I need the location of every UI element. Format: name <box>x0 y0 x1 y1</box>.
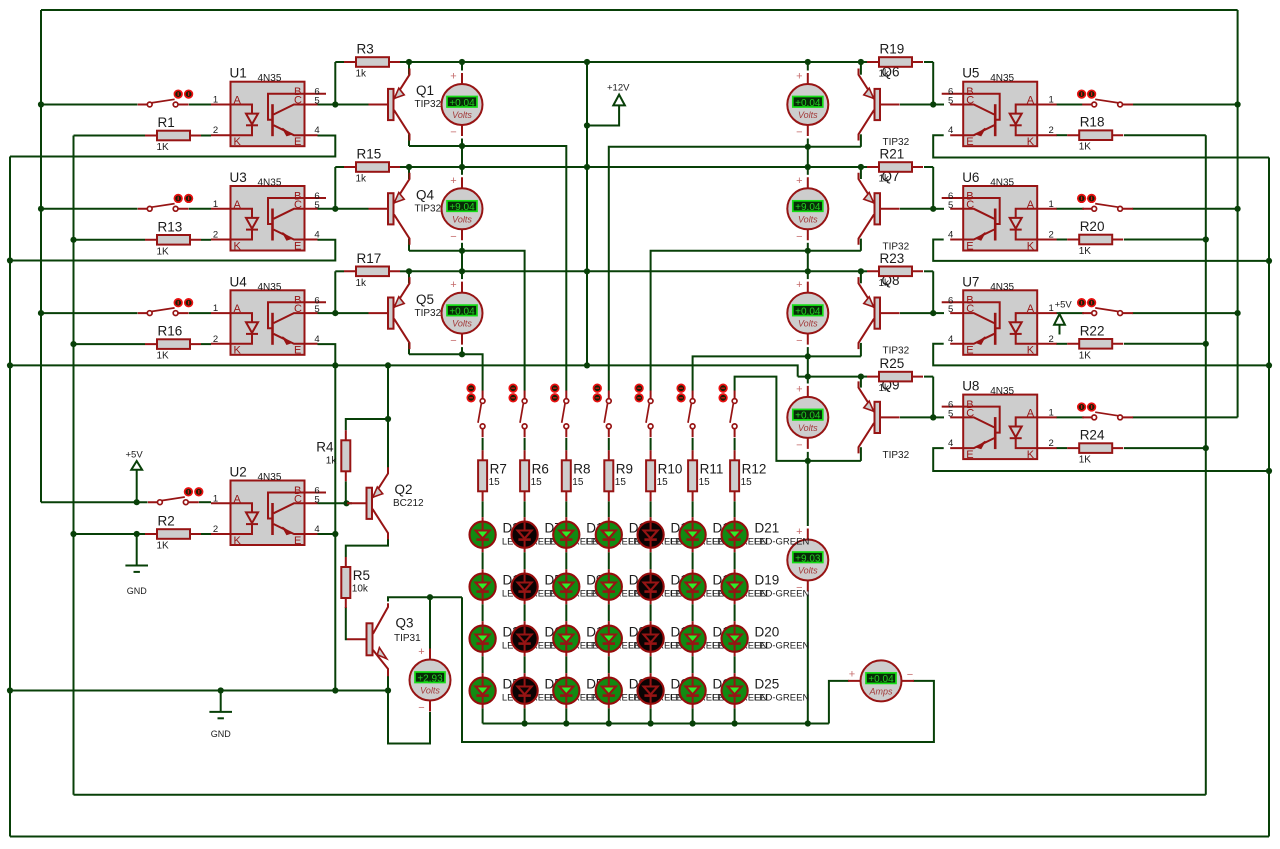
svg-text:1k: 1k <box>356 278 368 289</box>
wire column7 switch to resistor <box>734 438 736 450</box>
junction <box>584 122 590 128</box>
junction <box>805 353 811 359</box>
svg-text:Volts: Volts <box>798 214 818 224</box>
junction <box>930 310 936 316</box>
junction <box>406 59 412 65</box>
svg-text:A: A <box>234 199 242 211</box>
wire column1 segment 5 <box>482 708 484 723</box>
svg-text:Volts: Volts <box>452 110 472 120</box>
wire column4 segment 4 <box>608 656 610 673</box>
svg-text:U3: U3 <box>230 170 247 185</box>
svg-text:TIP32: TIP32 <box>883 346 910 357</box>
svg-text:K: K <box>1027 345 1035 357</box>
junction <box>563 720 569 726</box>
wire row3 1K-net to resistor <box>74 343 146 345</box>
LED D9 (LED-GREEN) <box>553 569 641 604</box>
svg-text:15: 15 <box>489 477 501 488</box>
svg-text:5: 5 <box>948 200 953 211</box>
svg-text:U2: U2 <box>230 465 247 480</box>
svg-text:15: 15 <box>657 477 669 488</box>
wire column2 switch to resistor <box>524 438 526 450</box>
svg-text:+: + <box>796 279 802 291</box>
wire V3 minus to bus <box>461 347 463 354</box>
svg-text:1: 1 <box>213 199 218 210</box>
wire V1R minus chain <box>807 139 809 175</box>
wire V3R minus chain <box>807 347 809 383</box>
wire +12V rail row1 <box>409 61 861 63</box>
wire row3 switch feed <box>41 312 137 314</box>
junction <box>805 720 811 726</box>
svg-text:U8: U8 <box>962 379 979 394</box>
wire rail3 resistor left link <box>335 270 344 272</box>
svg-text:K: K <box>1027 240 1035 252</box>
wire column3 switch to resistor <box>565 438 567 450</box>
svg-text:4: 4 <box>314 125 319 136</box>
svg-text:C: C <box>966 303 974 315</box>
wire Q2 collector to R5 <box>346 536 388 557</box>
switch SW12 (column) <box>594 384 612 437</box>
resistor R10 (15) <box>646 450 682 501</box>
LED D60 (LED-GREEN) <box>638 673 726 708</box>
svg-text:+: + <box>418 646 424 658</box>
wire row3R Q base link <box>900 312 933 314</box>
junction <box>858 268 864 274</box>
wire row2R emitter to rail <box>860 167 862 179</box>
resistor R11 (15) <box>688 450 723 501</box>
optocoupler U2 (4N35) <box>211 465 326 547</box>
wire rail1 resistor right link <box>400 61 409 63</box>
wire Q row2 emitter to rail <box>408 167 410 179</box>
svg-text:R11: R11 <box>700 461 724 476</box>
optocoupler U6 (4N35) <box>942 170 1057 252</box>
resistor R12 (15) <box>730 450 766 501</box>
meter V4 (+2.93 Volts) <box>410 646 451 714</box>
svg-text:D25: D25 <box>755 677 780 692</box>
svg-text:+9.04: +9.04 <box>449 202 475 213</box>
LED D13 (LED-GREEN) <box>596 517 684 552</box>
wire column5 segment 2 <box>650 552 652 569</box>
switch SW9 (column) <box>467 384 485 437</box>
junction <box>459 164 465 170</box>
junction <box>459 351 465 357</box>
svg-text:1: 1 <box>1049 407 1054 418</box>
svg-text:4N35: 4N35 <box>990 73 1014 84</box>
wire row3R rail elbow to opto C <box>932 271 934 313</box>
optocoupler U5 (4N35) <box>942 66 1057 148</box>
junction <box>38 206 44 212</box>
svg-text:−: − <box>418 702 424 714</box>
svg-text:+9.04: +9.04 <box>795 202 821 213</box>
wire row1R Q base link <box>900 104 933 106</box>
svg-text:2: 2 <box>1049 125 1054 136</box>
wire row1R emitter loop <box>933 135 1269 157</box>
wire LED bottom bus <box>483 723 829 725</box>
wire U1 emitter loop <box>10 136 335 157</box>
svg-text:15: 15 <box>531 477 543 488</box>
wire top bus <box>41 9 1238 11</box>
wire row1 1K-net to resistor <box>74 135 146 137</box>
switch SW11 (column) <box>551 384 569 437</box>
svg-text:1K: 1K <box>1079 350 1092 361</box>
wire V2R minus chain <box>807 243 809 279</box>
LED D18 (LED-GREEN) <box>680 517 768 552</box>
wire column7 segment 2 <box>734 552 736 569</box>
svg-text:15: 15 <box>699 477 711 488</box>
wire row2R rail resistor left link <box>861 166 867 168</box>
svg-text:+0.04: +0.04 <box>795 98 821 109</box>
wire row3R opto pin1 to switch <box>1056 312 1084 314</box>
junction <box>134 499 140 505</box>
wire U2 switch feed <box>41 501 148 503</box>
svg-text:+5V: +5V <box>126 449 144 460</box>
svg-text:5: 5 <box>314 304 319 315</box>
svg-text:K: K <box>234 535 242 547</box>
wire row3 opto C to Q base <box>318 312 369 314</box>
LED D11 (LED-GREEN) <box>553 621 641 656</box>
wire column5 segment 3 <box>650 604 652 621</box>
switch SW3 <box>138 299 193 316</box>
svg-text:1k: 1k <box>879 383 891 394</box>
resistor R8 (15) <box>562 450 591 501</box>
wire column3 segment 3 <box>565 604 567 621</box>
junction <box>385 687 391 693</box>
svg-text:E: E <box>294 345 301 357</box>
switch SW10 (column) <box>509 384 527 437</box>
wire V2 minus chain <box>461 243 463 279</box>
junction <box>805 248 811 254</box>
svg-text:K: K <box>1027 136 1035 148</box>
wire 1K-net left vertical <box>73 136 75 795</box>
LED D21 (LED-GREEN) <box>722 517 810 552</box>
svg-text:+: + <box>450 71 456 83</box>
transistor Q3 (TIP31) <box>347 603 421 676</box>
wire R2 to U2 pin2 <box>201 533 211 535</box>
wire 1K-net right vertical <box>1205 135 1207 795</box>
svg-text:A: A <box>1027 199 1035 211</box>
svg-text:−: − <box>450 127 456 139</box>
wire column2 segment 4 <box>524 656 526 673</box>
junction <box>459 143 465 149</box>
switch SW14 (column) <box>677 384 695 437</box>
junction <box>1235 206 1241 212</box>
resistor R6 (15) <box>520 450 549 501</box>
junction <box>1203 236 1209 242</box>
junction <box>805 164 811 170</box>
wire column1 switch to resistor <box>482 438 484 450</box>
transistor Q5 (TIP32) <box>369 277 442 349</box>
svg-text:K: K <box>1027 449 1035 461</box>
svg-text:R4: R4 <box>316 439 334 454</box>
wire R2 net <box>74 533 146 535</box>
wire row3 switch to opto pin1 <box>189 312 211 314</box>
wire row1R rail elbow to opto C <box>932 62 934 105</box>
svg-text:Q4: Q4 <box>416 188 435 203</box>
wire column7 segment 4 <box>734 656 736 673</box>
wire Q row1 collector to bus <box>408 134 410 146</box>
LED D16 (LED-GREEN) <box>638 517 726 552</box>
wire row1 opto C to Q base <box>318 104 369 106</box>
optocoupler U8 (4N35) <box>942 379 1057 461</box>
resistor R4 (1k) <box>316 430 350 481</box>
wire GND1 stem <box>136 534 138 566</box>
wire row4R emitter to rail <box>860 377 862 388</box>
junction <box>805 59 811 65</box>
meter V2 (+9.04 Volts) <box>442 175 483 243</box>
wire row3 resistor to opto pin2 <box>201 343 211 345</box>
svg-text:D21: D21 <box>755 521 780 536</box>
junction <box>459 268 465 274</box>
svg-text:4N35: 4N35 <box>258 472 282 483</box>
junction <box>805 374 811 380</box>
wire column4 segment 1 <box>608 501 610 517</box>
wire row2L bus to column2 <box>409 251 525 391</box>
wire row1R opto pin2 to resistor <box>1056 134 1067 136</box>
LED D8 (LED-GREEN) <box>596 621 684 656</box>
junction <box>584 362 590 368</box>
junction <box>134 531 140 537</box>
svg-text:4N35: 4N35 <box>258 282 282 293</box>
svg-text:R20: R20 <box>1080 219 1105 234</box>
wire row1R emitter to rail <box>860 62 862 75</box>
junction <box>7 362 13 368</box>
wire column2 segment 5 <box>524 708 526 723</box>
wire row3R emitter to rail <box>860 271 862 283</box>
wire column3 segment 4 <box>565 656 567 673</box>
wire row4R rail resistor right link <box>924 376 933 378</box>
svg-text:A: A <box>1027 407 1035 419</box>
junction <box>732 720 738 726</box>
switch SW5 <box>1078 90 1133 107</box>
wire row2 opto C to Q base <box>318 208 369 210</box>
wire U2 C to Q2 base <box>318 502 353 504</box>
svg-text:E: E <box>966 449 973 461</box>
svg-text:R18: R18 <box>1080 115 1105 130</box>
switch SW13 (column) <box>635 384 653 437</box>
svg-text:Q3: Q3 <box>396 615 414 630</box>
svg-text:2: 2 <box>1049 438 1054 449</box>
svg-text:1k: 1k <box>879 278 891 289</box>
svg-text:GND: GND <box>127 586 148 596</box>
svg-text:5: 5 <box>948 408 953 419</box>
resistor R2 (1K) <box>145 514 201 552</box>
svg-text:C: C <box>966 95 974 107</box>
resistor R18 (1K) <box>1067 115 1123 153</box>
svg-text:−: − <box>450 335 456 347</box>
svg-text:A: A <box>234 493 242 505</box>
LED D10 (LED-GREEN) <box>553 517 641 552</box>
resistor R24 (1K) <box>1067 428 1123 466</box>
wire R5 to Q3 base <box>346 607 347 639</box>
wire row2R opto C link <box>933 208 944 210</box>
svg-text:1K: 1K <box>157 351 170 362</box>
svg-text:R16: R16 <box>158 324 183 339</box>
svg-text:−: − <box>796 127 802 139</box>
wire ground-ring right vertical <box>1268 158 1270 837</box>
svg-text:R15: R15 <box>357 147 382 162</box>
svg-text:GND: GND <box>211 729 232 739</box>
optocoupler U4 (4N35) <box>211 274 326 356</box>
wire column6 segment 1 <box>692 501 694 517</box>
svg-text:K: K <box>234 345 242 357</box>
svg-text:−: − <box>796 439 802 451</box>
wire row2 1K-net to resistor <box>74 239 146 241</box>
wire column7 segment 1 <box>734 501 736 517</box>
svg-text:TIP32: TIP32 <box>415 204 442 215</box>
svg-text:4N35: 4N35 <box>990 178 1014 189</box>
wire mid vertical to ground bus <box>334 365 336 690</box>
LED D19 (LED-GREEN) <box>722 569 810 604</box>
wire row3R collector to bus <box>860 343 862 357</box>
svg-text:Volts: Volts <box>452 319 472 329</box>
svg-text:4: 4 <box>948 125 953 136</box>
LED D56 (LED-GREEN) <box>553 673 641 708</box>
wire row4R collector to bus <box>860 447 862 461</box>
svg-text:K: K <box>234 136 242 148</box>
svg-text:A: A <box>1027 303 1035 315</box>
wire row2 switch feed <box>41 208 137 210</box>
svg-text:4: 4 <box>948 438 953 449</box>
svg-text:U4: U4 <box>230 274 248 289</box>
LED D14 (LED-GREEN) <box>638 621 726 656</box>
svg-text:1k: 1k <box>879 69 891 80</box>
wire row4R emitter loop <box>933 448 1269 471</box>
junction <box>1203 445 1209 451</box>
svg-text:LED-GREEN: LED-GREEN <box>754 537 810 548</box>
svg-text:R6: R6 <box>532 461 549 476</box>
meter V3 (+0.04 Volts) <box>442 279 483 347</box>
svg-text:1k: 1k <box>356 174 368 185</box>
junction <box>584 164 590 170</box>
wire row4R opto pin1 to switch <box>1056 416 1084 418</box>
svg-text:E: E <box>966 240 973 252</box>
svg-text:+0.04: +0.04 <box>795 411 821 422</box>
resistor R16 (1K) <box>145 324 201 362</box>
svg-text:1: 1 <box>1049 303 1054 314</box>
svg-text:+5V: +5V <box>1055 300 1073 311</box>
svg-text:R8: R8 <box>573 461 590 476</box>
junction <box>332 362 338 368</box>
wire row3R bus to column6 <box>693 356 861 390</box>
svg-text:2: 2 <box>1049 230 1054 241</box>
wire Q row2 collector to bus <box>408 239 410 251</box>
svg-text:2: 2 <box>213 125 218 136</box>
wire column6 segment 5 <box>692 708 694 723</box>
svg-text:1K: 1K <box>1079 455 1092 466</box>
svg-text:Amps: Amps <box>868 686 893 696</box>
wire column6 segment 3 <box>692 604 694 621</box>
wire ammeter plus link <box>829 681 849 724</box>
svg-text:4N35: 4N35 <box>990 386 1014 397</box>
svg-text:E: E <box>294 535 301 547</box>
wire row2R switch to bus <box>1132 208 1237 210</box>
power symbol +5V <box>126 449 144 470</box>
junction <box>385 362 391 368</box>
meter V6 (+9.04 Volts) <box>787 175 828 243</box>
wire rail3 resistor right link <box>400 270 409 272</box>
wire Q row3 emitter to rail <box>408 271 410 283</box>
LED D20 (LED-GREEN) <box>722 621 810 656</box>
svg-text:1K: 1K <box>157 246 170 257</box>
svg-text:C: C <box>294 199 302 211</box>
junction <box>343 500 349 506</box>
resistor R20 (1K) <box>1067 219 1123 257</box>
resistor R22 (1K) <box>1067 323 1123 361</box>
svg-text:Volts: Volts <box>798 423 818 433</box>
wire R17 elbow down <box>334 271 336 313</box>
wire row3R opto C link <box>933 312 944 314</box>
resistor R21 (1k) <box>867 147 923 185</box>
svg-text:C: C <box>966 407 974 419</box>
junction <box>858 59 864 65</box>
wire row4R Q base link <box>900 416 933 418</box>
wire row1R opto pin1 to switch <box>1056 104 1084 106</box>
wire 1K-net bottom <box>74 794 1206 796</box>
wire V4 plus link <box>429 597 431 648</box>
svg-text:+12V: +12V <box>607 83 630 94</box>
svg-text:R25: R25 <box>880 356 905 371</box>
svg-text:C: C <box>294 493 302 505</box>
junction <box>606 720 612 726</box>
junction <box>459 248 465 254</box>
junction <box>930 414 936 420</box>
svg-text:A: A <box>234 303 242 315</box>
resistor R7 (15) <box>478 450 507 501</box>
ground symbol GND <box>209 691 232 740</box>
svg-text:D20: D20 <box>755 625 780 640</box>
svg-text:R2: R2 <box>158 514 175 529</box>
wire row4R rail elbow to opto C <box>932 377 934 418</box>
transistor Q8 (TIP32) <box>859 273 910 357</box>
wire +12V symbol link <box>587 106 619 126</box>
resistor R1 (1K) <box>145 115 201 153</box>
wire R4 bottom link <box>345 481 347 503</box>
svg-text:5: 5 <box>948 96 953 107</box>
svg-text:+: + <box>849 668 855 680</box>
svg-text:LED-GREEN: LED-GREEN <box>754 589 810 600</box>
switch SW7 <box>1078 299 1133 316</box>
LED D1 (LED-GREEN) <box>470 569 558 604</box>
wire column6 segment 2 <box>692 552 694 569</box>
wire column4 segment 2 <box>608 552 610 569</box>
transistor Q1 (TIP32) <box>369 69 442 141</box>
svg-text:1k: 1k <box>326 455 338 466</box>
transistor Q7 (TIP32) <box>859 169 910 253</box>
svg-text:−: − <box>796 335 802 347</box>
junction <box>1235 101 1241 107</box>
wire column5 segment 1 <box>650 501 652 517</box>
svg-text:U1: U1 <box>230 66 247 81</box>
svg-text:E: E <box>966 136 973 148</box>
wire column5 switch to resistor <box>650 438 652 450</box>
wire R3 elbow down <box>334 62 336 105</box>
wire row3R opto pin2 to resistor <box>1056 343 1067 345</box>
wire column6 segment 4 <box>692 656 694 673</box>
power symbol +5V (on U7 input) <box>1054 300 1072 335</box>
svg-text:Q2: Q2 <box>395 482 413 497</box>
svg-text:2: 2 <box>213 524 218 535</box>
junction <box>38 310 44 316</box>
switch SW4 <box>148 488 203 505</box>
wire row4R resistor to 1K-net <box>1124 447 1206 449</box>
svg-text:1K: 1K <box>157 541 170 552</box>
LED D7 (LED-GREEN) <box>511 517 599 552</box>
switch SW6 <box>1078 195 1133 212</box>
svg-text:R5: R5 <box>353 568 370 583</box>
svg-text:TIP31: TIP31 <box>394 633 421 644</box>
resistor R23 (1k) <box>867 251 923 289</box>
resistor R3 (1k) <box>344 42 400 80</box>
junction <box>459 59 465 65</box>
